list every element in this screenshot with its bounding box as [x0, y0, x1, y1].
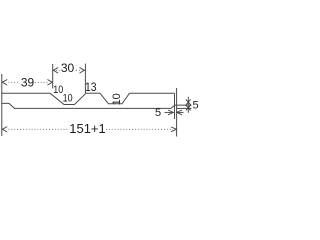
- right main extension line: [176, 88, 178, 137]
- bottom edge with left ledge: [2, 103, 175, 108]
- dimension 30 arrows: [53, 68, 84, 74]
- svg-text:30: 30: [61, 61, 75, 75]
- top edge right segment: [130, 92, 175, 94]
- svg-text:10: 10: [63, 93, 73, 105]
- top land 13: [86, 92, 100, 94]
- svg-text:151+1: 151+1: [69, 121, 106, 136]
- groove 1: [50, 93, 86, 104]
- extension line x=85.4: [84, 64, 86, 94]
- right ledge line + extension: [175, 104, 192, 106]
- dimension 39 dotted line: [9, 81, 50, 83]
- svg-text:39: 39: [21, 76, 35, 90]
- dimension 151+1 arrows: [2, 127, 176, 132]
- svg-text:10: 10: [111, 93, 123, 105]
- right step edge + extension: [174, 93, 176, 119]
- left extension line: [1, 74, 3, 136]
- svg-text:5: 5: [155, 107, 161, 119]
- dimension 5 vertical arrows (cross style): [186, 97, 191, 113]
- svg-text:13: 13: [85, 80, 97, 94]
- extension line x=52.7: [52, 64, 54, 89]
- dimension 151+1 dotted line: [9, 128, 174, 130]
- groove 2: [100, 93, 130, 104]
- dimension 30 dotted line: [56, 69, 82, 71]
- dimension 5 horizontal arrows: [165, 110, 184, 115]
- bottom edge extension right: [177, 107, 192, 109]
- svg-text:5: 5: [192, 100, 198, 112]
- top edge left segment: [2, 92, 50, 94]
- dimension 39 arrows: [2, 80, 52, 86]
